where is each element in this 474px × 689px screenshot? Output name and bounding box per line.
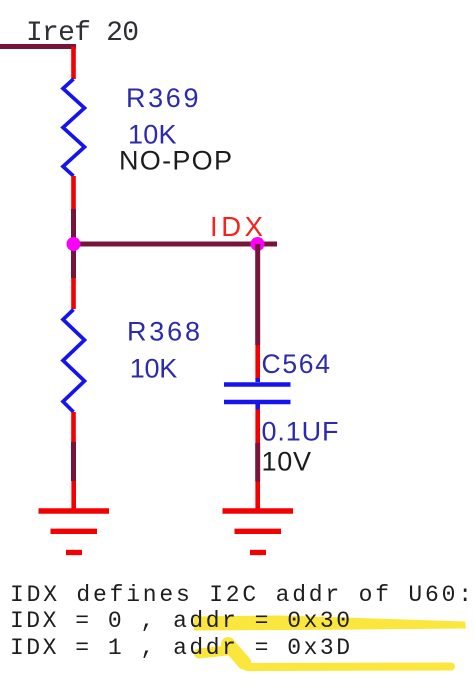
svg-text:IDX = 0 , addr = 0x30: IDX = 0 , addr = 0x30 xyxy=(10,608,350,634)
node junction left xyxy=(67,237,81,251)
wire Iref horizontal xyxy=(0,44,76,49)
wire pin R369 top xyxy=(71,47,76,80)
svg-text:10K: 10K xyxy=(130,354,178,384)
svg-text:IDX defines I2C addr of U60:: IDX defines I2C addr of U60: xyxy=(10,582,472,608)
resistor R368 xyxy=(63,310,85,413)
wire pin C564 top xyxy=(255,345,260,380)
node junction right xyxy=(251,237,265,251)
highlight stroke line2 xyxy=(194,616,466,631)
wire horizontal IDX net xyxy=(74,242,278,247)
wire pin R368 top xyxy=(71,278,76,309)
svg-text:R368: R368 xyxy=(127,317,200,347)
capacitor C564 xyxy=(224,378,291,410)
svg-text:NO-POP: NO-POP xyxy=(119,146,232,176)
wire pin left ground xyxy=(71,481,76,509)
wire pin C564 bottom xyxy=(255,410,260,444)
ground left xyxy=(39,511,110,553)
svg-text:0.1UF: 0.1UF xyxy=(262,417,339,447)
svg-text:10V: 10V xyxy=(262,447,312,477)
svg-text:R369: R369 xyxy=(126,83,199,113)
wire vertical to left ground xyxy=(71,442,76,481)
svg-text:C564: C564 xyxy=(262,349,331,379)
ground right xyxy=(223,511,294,553)
svg-text:IDX: IDX xyxy=(210,211,263,242)
highlight stroke line3 xyxy=(199,644,451,667)
wire pin right ground xyxy=(255,482,260,510)
resistor R369 xyxy=(63,79,85,176)
wire pin R368 bottom xyxy=(71,412,76,442)
wire vertical IDX to capacitor xyxy=(255,244,260,345)
svg-text:IDX = 1 , addr = 0x3D: IDX = 1 , addr = 0x3D xyxy=(10,635,350,661)
wire vertical to junction xyxy=(71,209,76,278)
wire vertical to right ground xyxy=(255,443,260,482)
wire pin R369 bottom xyxy=(71,176,76,209)
